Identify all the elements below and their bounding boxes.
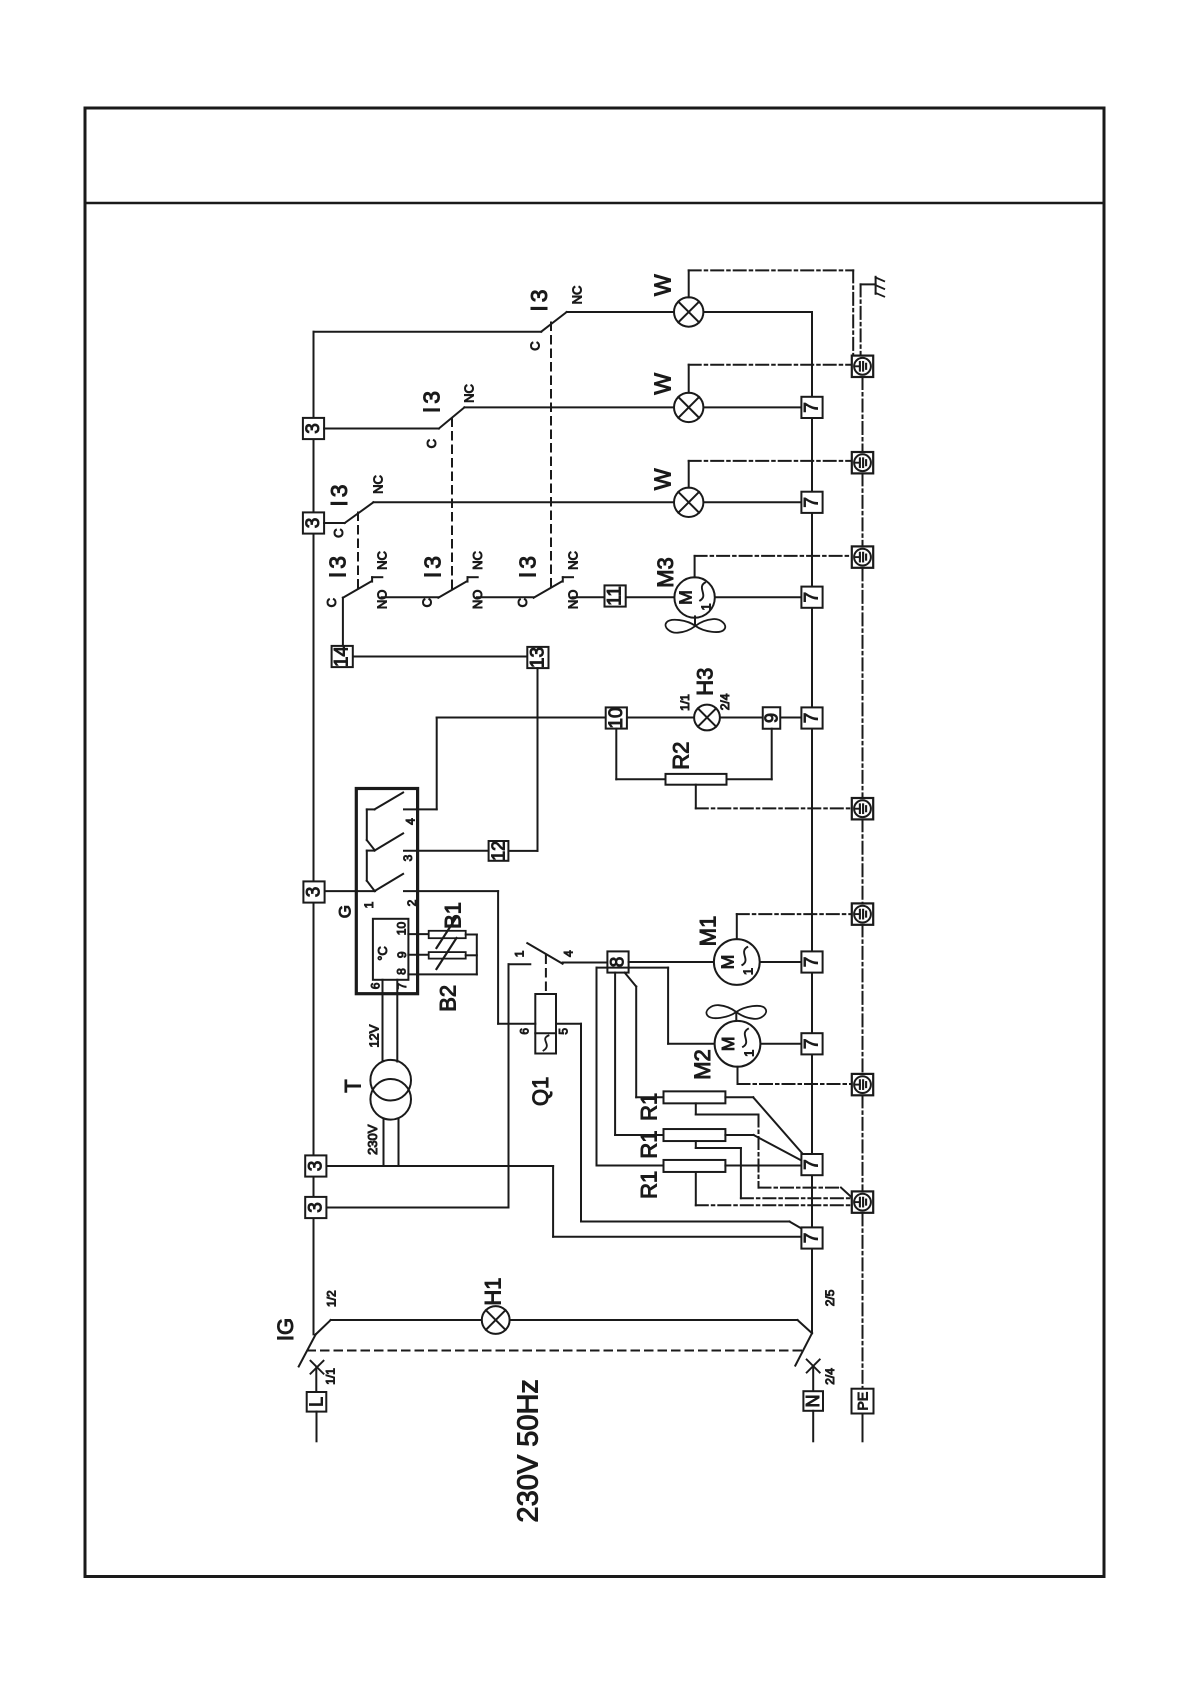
svg-text:M: M [675, 590, 695, 605]
svg-text:3: 3 [401, 854, 415, 861]
svg-text:1: 1 [513, 950, 527, 957]
svg-text:1: 1 [362, 901, 376, 908]
svg-text:3: 3 [305, 1161, 326, 1172]
svg-text:1/1: 1/1 [678, 694, 692, 711]
svg-text:B1: B1 [441, 902, 466, 929]
svg-text:230V: 230V [365, 1124, 380, 1155]
svg-text:2/5: 2/5 [823, 1289, 837, 1306]
svg-text:12: 12 [489, 841, 509, 861]
svg-text:NO: NO [470, 590, 485, 610]
svg-text:PE: PE [855, 1392, 871, 1411]
svg-text:I3: I3 [325, 553, 351, 578]
svg-text:W: W [650, 468, 676, 490]
svg-text:7: 7 [802, 1233, 823, 1244]
svg-text:2: 2 [405, 899, 419, 906]
svg-text:2/4: 2/4 [718, 693, 732, 710]
svg-text:7: 7 [802, 497, 823, 508]
svg-text:2/4: 2/4 [823, 1368, 837, 1385]
svg-text:1: 1 [741, 1050, 756, 1057]
svg-text:T: T [340, 1079, 365, 1092]
svg-text:R1: R1 [636, 1093, 661, 1121]
svg-text:H3: H3 [693, 668, 718, 696]
svg-text:NO: NO [374, 590, 389, 610]
svg-text:NO: NO [565, 590, 580, 610]
svg-text:I3: I3 [326, 481, 352, 506]
svg-text:8: 8 [395, 968, 409, 975]
svg-text:B2: B2 [436, 985, 461, 1012]
svg-text:L: L [307, 1397, 327, 1407]
svg-text:C: C [515, 598, 530, 607]
svg-text:14: 14 [332, 646, 353, 668]
svg-text:C: C [419, 598, 434, 607]
svg-text:3: 3 [304, 887, 325, 898]
svg-text:13: 13 [527, 647, 548, 668]
svg-text:7: 7 [802, 1039, 823, 1050]
svg-text:W: W [650, 274, 676, 296]
svg-text:NC: NC [462, 384, 477, 403]
svg-text:M: M [718, 955, 738, 970]
svg-text:12V: 12V [367, 1024, 382, 1047]
svg-text:M2: M2 [690, 1049, 715, 1080]
svg-text:NC: NC [371, 475, 386, 494]
svg-text:NC: NC [570, 286, 585, 305]
svg-text:C: C [324, 598, 339, 607]
svg-text:M3: M3 [653, 557, 678, 588]
svg-text:NC: NC [470, 551, 485, 570]
svg-text:R2: R2 [668, 742, 693, 770]
svg-text:I3: I3 [515, 553, 541, 578]
svg-text:10: 10 [395, 922, 409, 936]
svg-text:°C: °C [375, 946, 390, 961]
svg-text:1/2: 1/2 [325, 1290, 339, 1307]
svg-text:N: N [803, 1395, 823, 1408]
svg-text:R1: R1 [636, 1171, 661, 1199]
svg-text:7: 7 [802, 1159, 823, 1170]
svg-text:1/1: 1/1 [324, 1368, 338, 1385]
svg-text:3: 3 [305, 1202, 326, 1213]
svg-text:C: C [331, 529, 346, 538]
svg-text:M: M [718, 1037, 738, 1052]
svg-text:C: C [527, 341, 542, 350]
svg-text:C: C [424, 439, 439, 448]
svg-text:1: 1 [741, 968, 756, 975]
svg-text:4: 4 [562, 950, 576, 957]
svg-text:IG: IG [273, 1318, 298, 1341]
svg-text:NC: NC [565, 551, 580, 570]
svg-text:6: 6 [518, 1028, 532, 1035]
svg-text:H1: H1 [481, 1278, 506, 1306]
svg-text:I3: I3 [526, 286, 552, 311]
svg-text:6: 6 [369, 982, 383, 989]
svg-text:7: 7 [802, 713, 823, 724]
svg-text:9: 9 [762, 713, 782, 723]
svg-text:Q1: Q1 [528, 1077, 553, 1106]
svg-text:NC: NC [374, 551, 389, 570]
svg-text:I3: I3 [419, 553, 445, 578]
svg-text:8: 8 [608, 957, 629, 968]
svg-text:3: 3 [303, 423, 324, 434]
svg-text:3: 3 [303, 518, 324, 529]
svg-text:1: 1 [699, 603, 714, 610]
svg-text:10: 10 [606, 707, 627, 728]
svg-text:5: 5 [557, 1028, 571, 1035]
svg-text:7: 7 [802, 592, 823, 603]
svg-text:R1: R1 [636, 1130, 661, 1158]
svg-text:230V 50Hz: 230V 50Hz [513, 1379, 545, 1523]
svg-text:W: W [650, 373, 676, 395]
svg-text:9: 9 [395, 951, 409, 958]
svg-text:4: 4 [404, 818, 418, 825]
svg-text:7: 7 [802, 957, 823, 968]
svg-text:I3: I3 [419, 388, 445, 413]
svg-text:11: 11 [605, 586, 626, 606]
svg-text:G: G [336, 905, 355, 918]
svg-text:M1: M1 [696, 916, 721, 947]
svg-text:7: 7 [802, 402, 823, 413]
